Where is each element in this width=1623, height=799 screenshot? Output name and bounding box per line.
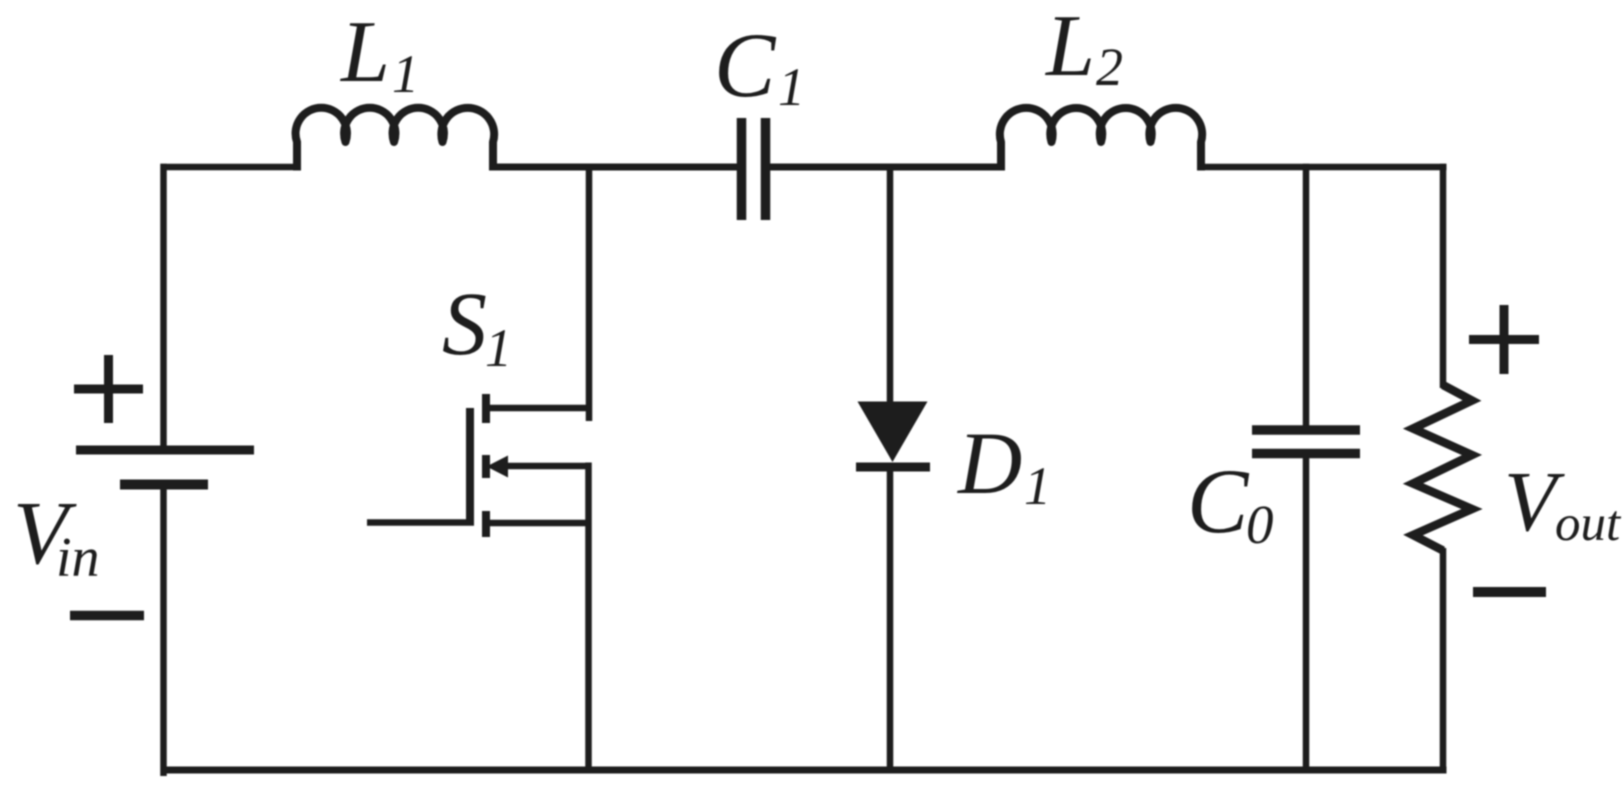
inductor L2 <box>1000 108 1202 171</box>
S1 drain lead <box>486 405 589 412</box>
inductor L1 <box>296 108 495 171</box>
minus sign at Vin <box>70 611 144 621</box>
wire D1 anode vertical (top wire to diode) <box>887 164 894 404</box>
battery Vin long plate <box>76 446 254 455</box>
svg-text:L: L <box>1044 0 1095 95</box>
svg-text:1: 1 <box>485 318 512 378</box>
S1 body arrow <box>487 456 509 478</box>
S1 body lead <box>505 463 589 470</box>
svg-text:2: 2 <box>1096 37 1123 97</box>
capacitor C0 bottom plate <box>1252 449 1360 459</box>
svg-text:L: L <box>339 4 390 101</box>
transistor S1 gate bar <box>466 408 474 523</box>
wire S1 source vertical (MOSFET to bottom rail) <box>585 463 592 771</box>
svg-text:out: out <box>1555 496 1622 552</box>
wire left rail upper (corner down to battery) <box>160 164 167 450</box>
svg-text:C: C <box>1187 450 1250 552</box>
S1 drain contact tick <box>482 394 490 423</box>
plus sign at Vin <box>74 385 143 394</box>
resistor R load zigzag <box>1413 385 1472 551</box>
wire top right (L2 to output corner) <box>1200 164 1447 171</box>
wire bottom rail (ground return) <box>161 767 1447 774</box>
diode D1 triangle <box>858 402 928 463</box>
capacitor C1 left plate <box>737 118 747 220</box>
svg-text:0: 0 <box>1246 494 1274 555</box>
svg-text:1: 1 <box>778 57 805 117</box>
svg-text:in: in <box>56 527 100 589</box>
wire C0 top vertical (output node to C0) <box>1303 164 1310 427</box>
wire left rail lower (battery to bottom rail) <box>160 484 167 776</box>
plus sign at Vout <box>1469 335 1539 344</box>
capacitor C0 top plate <box>1252 425 1360 435</box>
wire top middle (L1 to C1 left plate) <box>493 164 741 171</box>
S1 gate lead wire <box>367 519 474 526</box>
capacitor C1 right plate <box>761 118 771 220</box>
svg-text:1: 1 <box>1024 456 1051 516</box>
svg-text:S: S <box>442 275 487 374</box>
wire top middle-right (C1 right plate to L2) <box>766 164 1001 171</box>
wire D1 cathode vertical (diode to bottom rail) <box>887 467 894 770</box>
wire right rail lower (resistor to bottom rail) <box>1440 548 1447 770</box>
wire C0 bottom vertical (C0 to bottom rail) <box>1303 456 1310 770</box>
wire top-left horizontal (Vin+ to L1) <box>161 164 298 171</box>
S1 source lead <box>486 520 589 527</box>
svg-text:D: D <box>957 415 1022 513</box>
diode D1 cathode bar <box>856 463 930 472</box>
minus sign at Vout <box>1473 587 1546 597</box>
svg-text:C: C <box>714 14 777 116</box>
battery Vin short plate <box>120 480 208 490</box>
S1 body contact tick <box>482 455 490 478</box>
svg-text:1: 1 <box>392 44 419 104</box>
S1 source contact tick <box>482 511 490 537</box>
wire right rail upper (corner to resistor) <box>1440 164 1447 388</box>
wire S1 drain vertical (top node to MOSFET drain) <box>586 164 593 421</box>
